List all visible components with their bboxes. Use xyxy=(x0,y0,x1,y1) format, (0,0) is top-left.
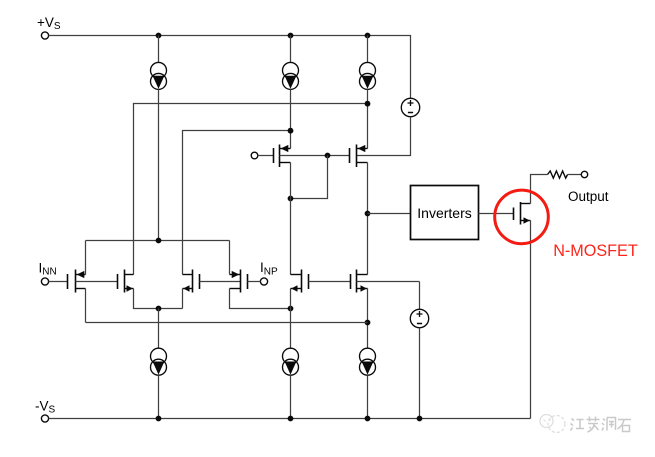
wire M7-M8 gate xyxy=(309,281,351,283)
terminal INP xyxy=(260,278,267,285)
transistor M3 xyxy=(183,270,200,293)
node diffbus-col1 xyxy=(156,238,162,244)
current source I5 xyxy=(283,348,299,375)
node rail-col2b xyxy=(288,416,294,422)
wire M1 drain xyxy=(85,241,87,275)
terminal INN xyxy=(41,278,48,285)
voltage source V1 xyxy=(401,98,419,116)
node M5 gate-net xyxy=(325,153,331,159)
node rail-col1 xyxy=(156,33,162,39)
wire M8 bulk to V2 xyxy=(419,282,421,310)
wire tail col1 xyxy=(158,309,160,349)
wire R1 to output xyxy=(568,174,582,176)
transistor M6 xyxy=(350,145,368,168)
node col2-M5src xyxy=(288,196,294,202)
inverters box U1 xyxy=(411,186,479,240)
terminal Output xyxy=(581,171,587,177)
node col2-L2 xyxy=(288,128,294,134)
voltage source V2 xyxy=(410,309,428,327)
wire M2 drain to col3 xyxy=(134,104,368,275)
transistor M5 xyxy=(274,145,350,168)
transistor Q1 N-MOSFET xyxy=(514,202,531,225)
wire col3 upper xyxy=(367,36,369,63)
wire inverters to Q1 gate xyxy=(479,213,514,215)
wire Q1 drain xyxy=(531,175,548,204)
wire Q1 source xyxy=(530,221,532,419)
svg-text:Output: Output xyxy=(568,189,609,204)
wire to inverters xyxy=(368,213,411,215)
watermark logo xyxy=(540,415,565,433)
node rail-col1b xyxy=(156,416,162,422)
wire M3-M4 gate xyxy=(200,281,241,283)
wire col1 upper xyxy=(158,36,160,63)
wire col2 M5 to M7 xyxy=(290,163,292,275)
current source I4 xyxy=(151,348,167,375)
watermark text 江苏润石 xyxy=(571,417,632,433)
wire V1 to M6 bulk xyxy=(357,117,411,156)
node col3-L1 xyxy=(365,101,371,107)
annotation circle (red) xyxy=(495,190,549,244)
terminal M5 gate xyxy=(251,152,258,159)
wire col1 to diff bus xyxy=(158,89,160,240)
wire M3 drain to col2 xyxy=(183,131,291,275)
node col3-inverters xyxy=(365,211,371,217)
wire M8 source xyxy=(367,289,369,349)
wire INP lead xyxy=(248,281,261,283)
wire I6 to rail xyxy=(367,375,369,418)
wire M2 source xyxy=(134,289,183,309)
wire diff drain bus xyxy=(86,240,230,242)
wire INN lead xyxy=(49,281,68,283)
transistor M4 xyxy=(230,270,248,293)
transistor M1 xyxy=(68,270,118,293)
resistor R1 xyxy=(548,171,568,178)
transistor M7 xyxy=(291,270,309,293)
wire M5 gate lead xyxy=(258,155,274,157)
wire col3 mid xyxy=(367,89,369,148)
node rail-col3 xyxy=(365,33,371,39)
wire col2 upper xyxy=(290,36,292,63)
wire gate-net to M5 source xyxy=(291,156,328,199)
wire M4 source xyxy=(230,289,291,309)
node rail-col3b xyxy=(365,416,371,422)
wire +Vs rail xyxy=(49,36,411,99)
wire I5 to rail xyxy=(290,375,292,418)
wire source bus xyxy=(86,322,368,324)
current source I6 xyxy=(360,348,376,375)
wire M1 source xyxy=(85,289,87,323)
wire -Vs rail xyxy=(49,418,531,420)
node rail-V2 xyxy=(417,416,423,422)
wire M7 source col2 xyxy=(290,289,292,349)
terminal +Vs xyxy=(41,32,48,39)
current source I2 xyxy=(283,62,299,89)
current source I1 xyxy=(151,62,167,89)
node srcbus-col3 xyxy=(365,320,371,326)
node src-col2 xyxy=(288,306,294,312)
wire M4 drain xyxy=(229,241,231,275)
wire I4 to rail xyxy=(158,375,160,418)
node rail-col2 xyxy=(288,33,294,39)
transistor M8 xyxy=(351,270,420,293)
terminal -Vs xyxy=(41,415,48,422)
wire V2 to rail xyxy=(419,328,421,419)
wire col2 mid xyxy=(290,89,292,148)
current source I3 xyxy=(360,62,376,89)
node tail-col1 xyxy=(156,306,162,312)
wire col3 M6 to M8 xyxy=(367,163,369,275)
transistor M2 xyxy=(118,270,134,293)
svg-text:Inverters: Inverters xyxy=(417,205,471,221)
svg-text:N-MOSFET: N-MOSFET xyxy=(553,242,638,260)
wire M3 source xyxy=(182,289,184,309)
